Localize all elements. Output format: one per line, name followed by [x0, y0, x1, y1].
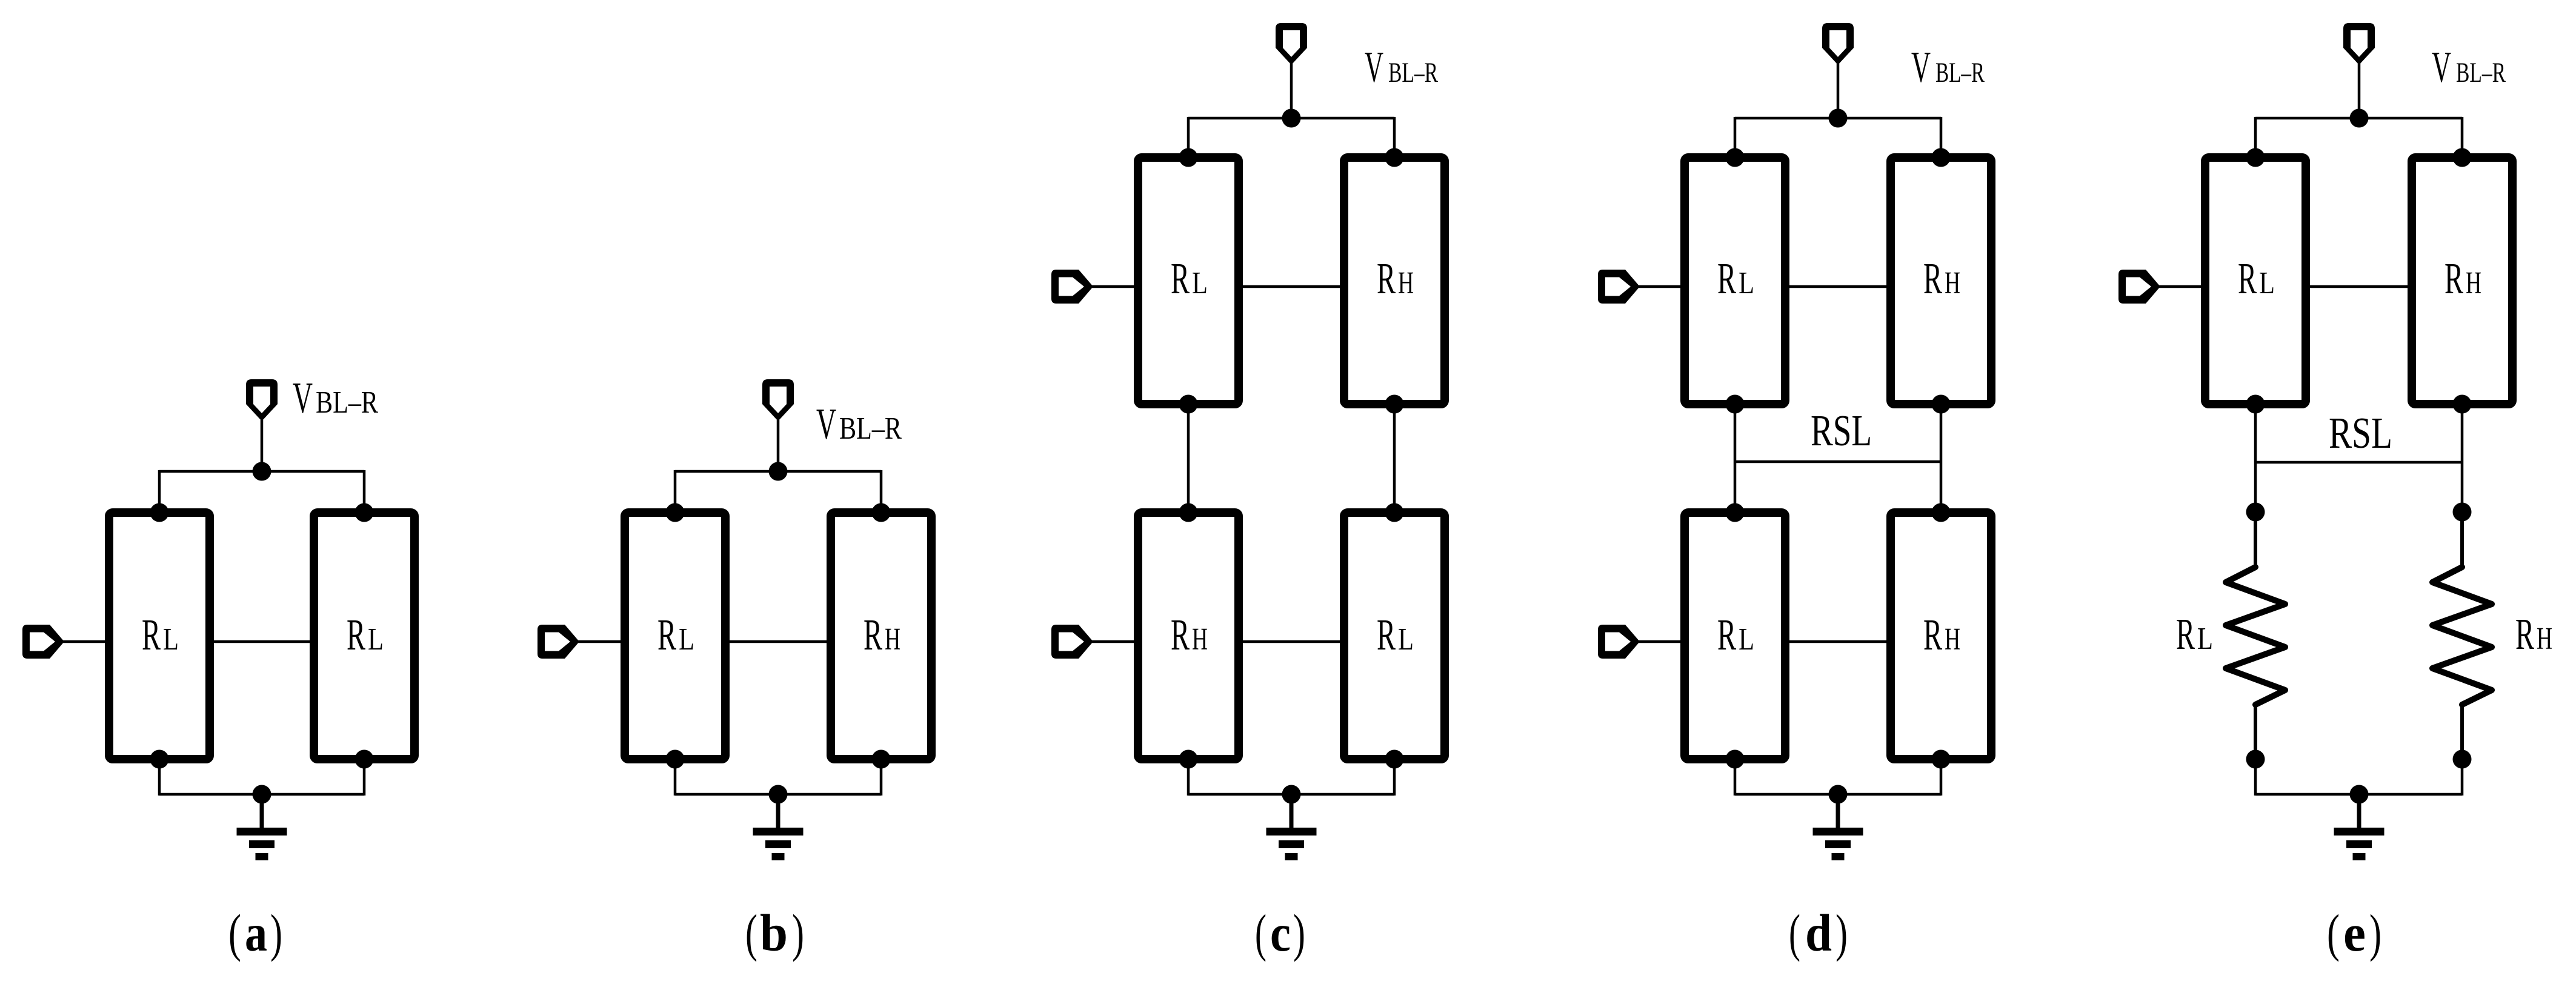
svg-text:R: R	[347, 610, 365, 659]
svg-text:L: L	[1398, 622, 1414, 657]
svg-text:R: R	[864, 610, 882, 659]
svg-text:BL–R: BL–R	[839, 411, 902, 446]
svg-text:R: R	[2176, 610, 2195, 659]
svg-text:L: L	[2259, 266, 2275, 301]
svg-text:R: R	[2515, 610, 2534, 659]
svg-text:R: R	[1377, 254, 1396, 303]
svg-text:R: R	[1377, 610, 1396, 659]
svg-text:R: R	[1171, 254, 1190, 303]
svg-text:R: R	[1717, 254, 1736, 303]
svg-text:b: b	[760, 903, 788, 962]
svg-text:BL–R: BL–R	[1388, 57, 1438, 88]
svg-text:L: L	[1739, 266, 1754, 301]
svg-text:H: H	[885, 622, 900, 657]
svg-text:L: L	[2197, 622, 2213, 656]
svg-text:H: H	[1945, 622, 1960, 657]
svg-text:L: L	[679, 622, 694, 657]
svg-text:V: V	[293, 373, 313, 422]
svg-text:V: V	[816, 399, 836, 448]
svg-text:R: R	[142, 610, 161, 659]
svg-text:L: L	[1739, 622, 1754, 657]
svg-text:e: e	[2343, 903, 2366, 962]
svg-text:R: R	[657, 610, 676, 659]
svg-text:RSL: RSL	[2329, 408, 2392, 457]
svg-text:V: V	[2432, 42, 2451, 91]
svg-text:BL–R: BL–R	[1935, 57, 1985, 88]
svg-text:a: a	[245, 903, 267, 962]
svg-text:R: R	[2445, 254, 2463, 303]
svg-text:c: c	[1270, 903, 1291, 962]
svg-text:L: L	[163, 622, 179, 657]
svg-text:): )	[1835, 903, 1848, 962]
svg-text:L: L	[1192, 266, 1208, 301]
svg-text:H: H	[2466, 266, 2481, 301]
svg-text:R: R	[1923, 610, 1942, 659]
svg-text:R: R	[2238, 254, 2257, 303]
svg-text:V: V	[1911, 42, 1931, 91]
svg-text:R: R	[1171, 610, 1190, 659]
svg-text:(: (	[2327, 903, 2340, 962]
svg-text:BL–R: BL–R	[2456, 57, 2506, 88]
svg-text:H: H	[1945, 266, 1960, 301]
svg-text:): )	[792, 903, 804, 962]
svg-text:H: H	[2537, 622, 2552, 656]
svg-text:(: (	[745, 903, 757, 962]
svg-text:(: (	[1255, 903, 1266, 962]
svg-text:H: H	[1192, 622, 1208, 657]
svg-text:(: (	[228, 903, 241, 962]
svg-text:): )	[2369, 903, 2381, 962]
svg-text:BL–R: BL–R	[316, 385, 378, 420]
svg-text:L: L	[368, 622, 384, 657]
svg-text:): )	[1293, 903, 1305, 962]
svg-text:H: H	[1398, 266, 1414, 301]
svg-text:d: d	[1805, 903, 1832, 962]
svg-text:(: (	[1789, 903, 1800, 962]
svg-text:RSL: RSL	[1811, 406, 1872, 455]
svg-text:): )	[270, 903, 282, 962]
svg-text:V: V	[1365, 42, 1383, 91]
svg-text:R: R	[1717, 610, 1736, 659]
svg-text:R: R	[1923, 254, 1942, 303]
